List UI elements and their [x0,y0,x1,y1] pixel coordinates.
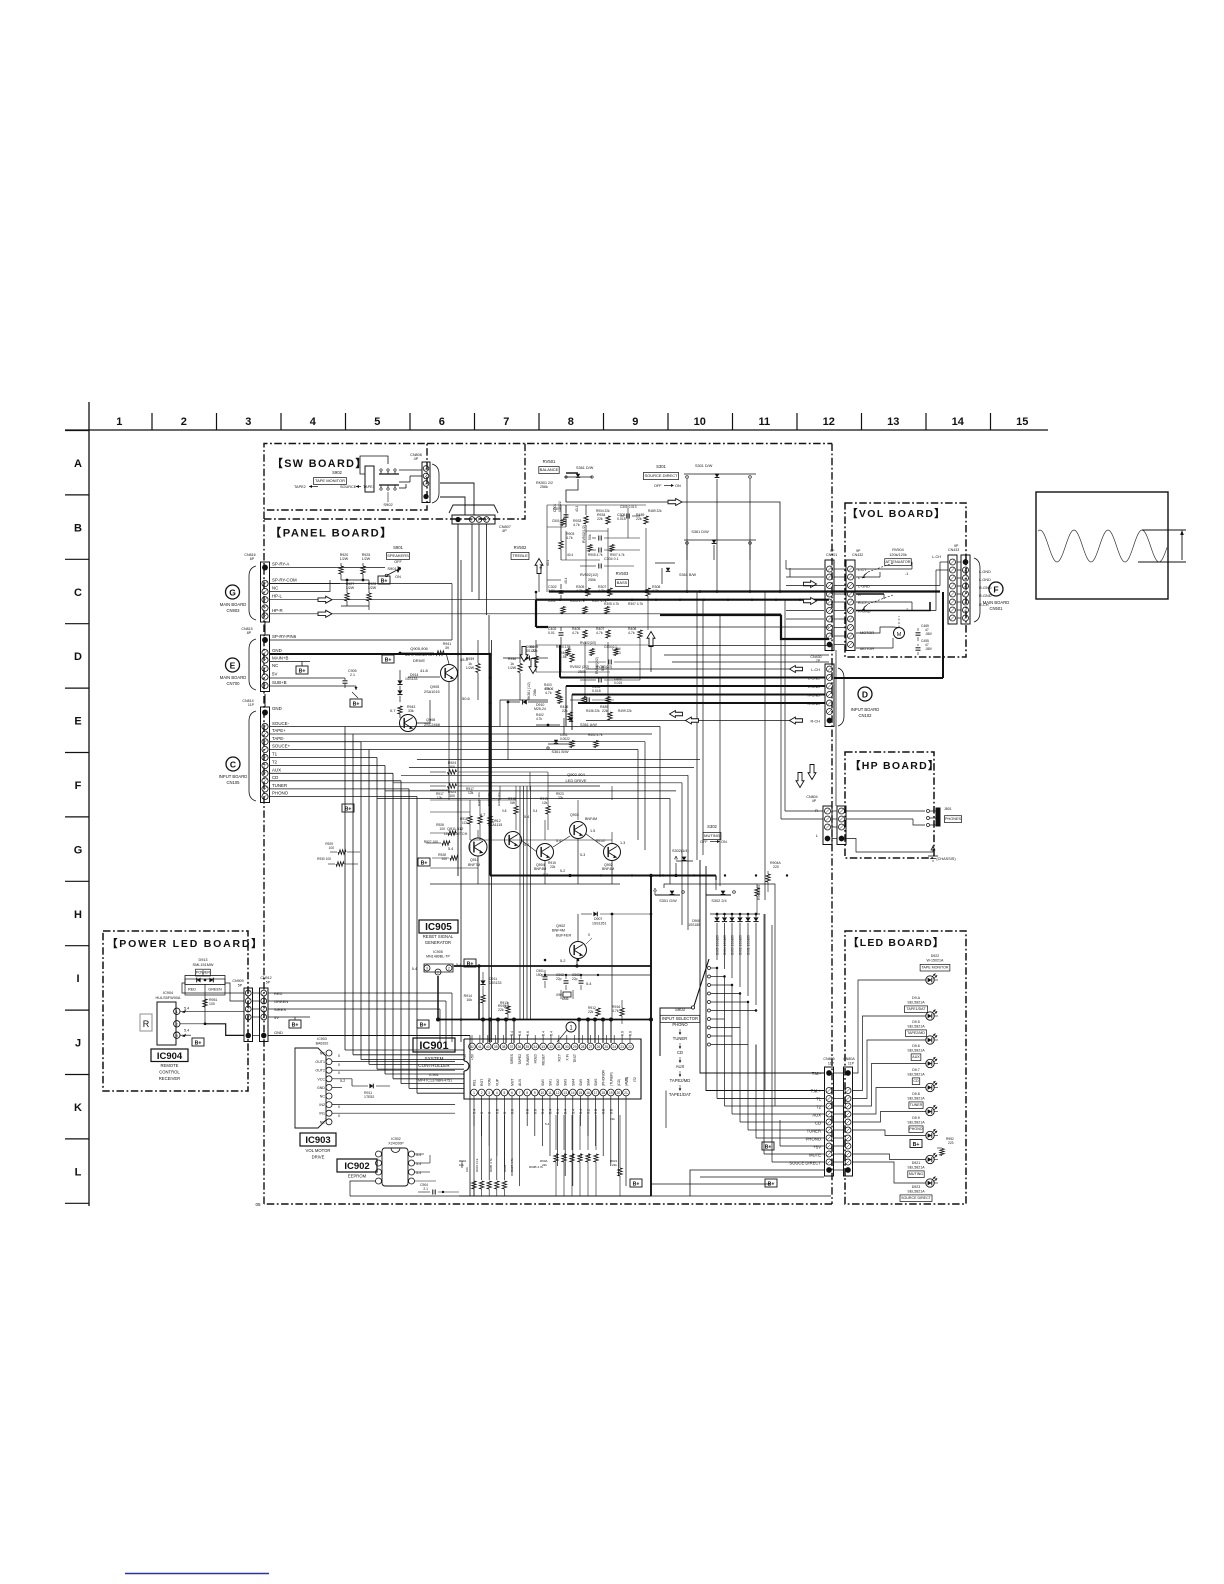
wire ic905 thick rail y966 [454,965,651,967]
svg-text:2SA1015: 2SA1015 [424,690,440,694]
svg-text:0.0022: 0.0022 [560,737,570,741]
svg-text:120k/120k: 120k/120k [889,553,907,557]
svg-text:C501: C501 [552,519,560,523]
svg-text:S902: S902 [332,470,342,475]
svg-text:24: 24 [612,1045,616,1049]
svg-text:18: 18 [601,1091,605,1095]
svg-text:1TE52: 1TE52 [364,1095,374,1099]
svg-text:223: 223 [948,1141,954,1145]
svg-text:SM0: SM0 [541,1079,545,1086]
tone texture resistors [561,519,565,526]
B+ box above IC901 label [417,1020,429,1028]
svg-text:5-2: 5-2 [560,869,565,873]
svg-text:22k: 22k [579,1153,583,1158]
svg-text:17: 17 [594,1091,598,1095]
grid ruler left line [88,402,90,1206]
wire CN401-CN432 bridges [834,568,846,570]
wire bundle verticals [559,645,561,678]
svg-text:1: 1 [176,1010,178,1014]
svg-text:11P: 11P [828,1062,835,1066]
wire tape rows right [345,726,660,728]
svg-text:MAIN BOARD: MAIN BOARD [220,675,247,680]
svg-text:41.8: 41.8 [420,668,429,673]
svg-text:MUTING: MUTING [909,1172,923,1176]
svg-text:10k: 10k [459,1163,464,1167]
svg-text:BALANCE: BALANCE [540,467,559,472]
svg-text:R922 1Ck: R922 1Ck [497,792,501,806]
svg-text:CN105: CN105 [226,780,240,785]
svg-text:NC: NC [320,1052,326,1056]
svg-text:5.4: 5.4 [571,1109,575,1114]
wire tone right rows [648,645,829,647]
svg-text:E: E [230,661,236,671]
svg-text:150p: 150p [536,973,544,977]
svg-text:L: L [858,576,860,580]
svg-text:5.4: 5.4 [556,1109,560,1114]
svg-text:BNF4M: BNF4M [585,817,597,821]
wire selector common [660,1008,692,1056]
svg-text:5-4: 5-4 [412,967,417,971]
svg-text:GND: GND [272,648,282,653]
svg-text:B+: B+ [195,1040,202,1046]
svg-text:R907 4.7k: R907 4.7k [510,1158,514,1172]
svg-text:Q902: Q902 [556,924,565,928]
svg-text:SUB+B: SUB+B [272,680,287,685]
tone mesh horizontals [547,504,646,506]
svg-text:LED DRIVE: LED DRIVE [565,778,586,783]
svg-text:BUFFER: BUFFER [556,934,571,938]
svg-text:26: 26 [597,1045,601,1049]
svg-text:4.7k: 4.7k [566,536,573,540]
svg-text:50k: 50k [588,534,592,540]
svg-text:IC904: IC904 [163,991,173,995]
svg-text:RV502(1/2): RV502(1/2) [582,525,586,543]
svg-text:【PANEL BOARD】: 【PANEL BOARD】 [270,527,393,540]
svg-text:0: 0 [338,1071,340,1075]
svg-text:C305 0.013: C305 0.013 [620,505,637,509]
svg-text:EEPROM: EEPROM [348,1174,367,1179]
svg-text:J: J [75,1038,81,1050]
wire tape monitor drive [448,682,450,790]
svg-text:L-GND: L-GND [858,585,870,589]
svg-text:2: 2 [448,967,450,971]
svg-text:1Ck: 1Ck [462,821,468,825]
svg-text:SOURCE DIRECT: SOURCE DIRECT [644,473,678,478]
svg-text:20: 20 [617,1091,621,1095]
svg-text:R: R [143,1019,150,1029]
svg-text:12k: 12k [468,791,474,795]
svg-text:1.5: 1.5 [590,829,595,833]
svg-text:40.1: 40.1 [546,560,550,566]
svg-text:5.4: 5.4 [579,1109,583,1114]
svg-text:S301 D/W: S301 D/W [695,464,713,468]
svg-text:D9.A: D9.A [912,996,921,1000]
svg-text:11: 11 [548,1091,552,1095]
svg-text:1: 1 [473,1091,475,1095]
svg-text:2: 2 [176,1023,178,1027]
svg-text:D9.5: D9.5 [912,1020,920,1024]
svg-text:D9.6: D9.6 [912,1044,920,1048]
svg-text:CN700: CN700 [226,681,240,686]
svg-text:BASS: BASS [617,580,628,585]
svg-text:NC: NC [272,663,278,668]
svg-text:22k: 22k [610,1117,615,1121]
svg-text:TAPE2: TAPE2 [294,485,306,489]
VOL to CN433 wires [940,561,948,563]
svg-text:R905 4.7k: R905 4.7k [489,1158,493,1172]
IC903 label box [300,1133,336,1146]
svg-text:1/2W: 1/2W [340,557,349,561]
svg-text:R-CH: R-CH [811,720,821,724]
svg-text:RESET: RESET [542,1054,546,1065]
wire mid bus below [512,1114,620,1116]
svg-text:L-CH: L-CH [932,555,941,559]
wire ic905 pin1 drop [437,976,439,1020]
svg-text:1SS133: 1SS133 [405,677,418,681]
connector CN804 hp side [837,806,846,845]
svg-text:L-GND: L-GND [979,578,991,582]
svg-text:BNF4M: BNF4M [552,929,565,933]
svg-text:3: 3 [176,1034,178,1038]
svg-text:D902 1SS185: D902 1SS185 [739,935,743,955]
svg-text:T.M.+: T.M.+ [811,1089,822,1094]
svg-text:10: 10 [541,1091,545,1095]
svg-text:R921 1Ck: R921 1Ck [487,792,491,806]
svg-text:16: 16 [586,1091,590,1095]
svg-text:W-15021A: W-15021A [927,959,945,963]
wire mid verticals [696,592,698,860]
svg-text:0.8: 0.8 [602,1109,606,1114]
svg-text:CN805: CN805 [823,1057,834,1061]
wire CN805-CN80A bridges [834,1072,844,1074]
wire MAIN+B [270,661,310,663]
svg-text:【SW BOARD】: 【SW BOARD】 [272,457,368,470]
grid ruler top line [65,429,1048,431]
svg-text:ON: ON [395,575,401,579]
svg-text:X IN: X IN [565,1053,569,1060]
svg-text:41: 41 [478,1045,482,1049]
svg-text:CN432: CN432 [852,553,863,557]
selector contact wires [711,967,717,969]
wire SP-RY-PIN6 [270,639,452,641]
svg-text:25: 25 [605,1045,609,1049]
svg-text:BNF7M: BNF7M [468,863,480,867]
svg-text:HULS5FW00A: HULS5FW00A [156,996,181,1000]
svg-text:Q905: Q905 [430,685,439,689]
svg-text:0: 0 [338,1105,340,1109]
svg-text:DRIVE: DRIVE [413,658,426,663]
wire reset drops to IC901 [482,1020,484,1044]
svg-text:D921: D921 [912,1161,921,1165]
node C input board CN105 [226,757,240,771]
svg-text:0: 0 [480,1112,484,1114]
svg-text:0.01: 0.01 [548,631,555,635]
svg-text:G: G [74,844,83,856]
svg-text:F: F [993,585,998,595]
thick vertical x943 [942,592,944,678]
svg-text:6P: 6P [250,557,255,561]
svg-text:3: 3 [426,967,428,971]
svg-text:39: 39 [494,1045,498,1049]
svg-text:SML151MW: SML151MW [193,963,214,967]
svg-text:S302(1/4): S302(1/4) [672,849,689,853]
svg-text:22k: 22k [636,517,642,521]
svg-text:B+: B+ [421,860,428,866]
svg-text:【VOL BOARD】: 【VOL BOARD】 [847,507,946,520]
tone mesh verticals [546,505,548,592]
svg-text:Q902-904: Q902-904 [567,772,586,777]
svg-text:SEL5821A: SEL5821A [907,1001,925,1005]
VOL BOARD outline [845,503,966,657]
svg-text:Q905,906: Q905,906 [410,646,428,651]
svg-text:S901: S901 [393,545,403,550]
wire fan boost [717,1098,824,1100]
wire T1 T2 branch right [417,759,700,761]
svg-text:OFF: OFF [654,484,662,488]
svg-text:4: 4 [310,416,317,428]
svg-text:1: 1 [116,416,122,428]
remote receiver window icon [140,1014,152,1031]
svg-text:SYSTEM: SYSTEM [425,1056,444,1061]
svg-text:S301: S301 [656,464,666,469]
svg-text:5.4: 5.4 [448,847,453,851]
svg-text:AUX: AUX [518,1078,522,1086]
svg-text:D903 1SS185: D903 1SS185 [731,935,735,955]
svg-text:0.2: 0.2 [587,1109,591,1114]
wire LED board feeds [853,980,926,1073]
wire bottom rail2 [651,1195,831,1197]
row D-E mid horizontals [500,699,548,701]
svg-text:GREEN: GREEN [208,988,222,992]
svg-text:TREBLE: TREBLE [512,553,528,558]
svg-text:0.015: 0.015 [614,681,622,685]
svg-text:D913: D913 [198,958,207,962]
svg-text:R905 220: R905 220 [757,885,761,900]
arrow L-CH left [790,666,803,673]
svg-text:C502: C502 [548,599,556,603]
svg-text:22k: 22k [555,1153,559,1158]
svg-text:5-4: 5-4 [586,982,592,986]
svg-text:S361 D/W: S361 D/W [576,466,594,470]
svg-text:PHONO: PHONO [272,791,289,796]
wire staircase bottom to IC [344,1039,346,1041]
connector CN403 [961,555,970,624]
svg-text:4.7k: 4.7k [544,687,550,691]
svg-text:5-3: 5-3 [580,853,585,857]
svg-text:12k: 12k [437,796,443,800]
svg-text:Q906: Q906 [426,718,435,722]
svg-text:0.8: 0.8 [495,1109,499,1114]
wire staircase left starts [665,1091,667,1129]
svg-text:38: 38 [502,1045,506,1049]
wire ic901 top stubs [471,1035,473,1043]
svg-text:T1: T1 [816,1097,822,1102]
svg-text:5V: 5V [272,672,277,677]
svg-text:1.3: 1.3 [620,841,625,845]
svg-text:11P: 11P [848,1062,855,1066]
svg-text:PHONES: PHONES [945,817,962,821]
svg-text:22k: 22k [597,517,603,521]
svg-text:D9.7: D9.7 [912,1068,920,1072]
svg-text:0: 0 [338,1054,340,1058]
svg-text:4.7k: 4.7k [545,691,552,695]
svg-text:+5V: +5V [463,1053,467,1060]
IC902 label box [337,1159,377,1172]
svg-text:S902: S902 [383,502,393,507]
svg-text:CN80A: CN80A [843,1057,855,1061]
wire CN401 stubs [786,568,824,570]
svg-text:CD: CD [272,775,278,780]
wire power led to conn [182,983,244,993]
arrow HP-L [270,599,785,601]
svg-text:LED SWITCH: LED SWITCH [444,832,468,836]
svg-text:R307 4.7k: R307 4.7k [592,599,607,603]
chassis ground [932,846,934,852]
selector right rail [759,914,761,1045]
svg-text:SMA: SMA [587,1078,591,1086]
svg-text:E: E [74,716,81,728]
svg-text:IC903: IC903 [305,1135,330,1146]
svg-text:29: 29 [573,1045,577,1049]
wire thick bus y599 [536,599,829,601]
svg-text:0: 0 [503,1112,507,1114]
LED D921 MUTING [926,1155,934,1163]
B+ box mid right [762,1142,774,1150]
svg-text:MAIN BOARD: MAIN BOARD [220,602,247,607]
arrow up tone [535,559,543,574]
svg-text:5-4: 5-4 [545,1122,550,1126]
svg-text:40.4: 40.4 [567,553,573,557]
svg-text:5.4: 5.4 [542,1031,546,1036]
svg-text:D905 1SS185: D905 1SS185 [716,935,720,955]
svg-text:CN909: CN909 [232,979,243,983]
svg-text:VCC: VCC [317,1077,325,1081]
svg-text:5-2: 5-2 [340,1079,345,1083]
HP BOARD outline [845,752,934,858]
svg-text:R906: R906 [503,1164,507,1172]
svg-text:INPUT BOARD: INPUT BOARD [851,707,880,712]
svg-text:ATTENUATOR: ATTENUATOR [885,560,910,564]
IC904 body [157,1002,176,1045]
svg-text:100: 100 [209,1002,215,1006]
svg-text:BNF4M: BNF4M [602,867,614,871]
svg-text:RV502(1/2): RV502(1/2) [580,573,598,577]
svg-text:D9.8: D9.8 [912,1092,920,1096]
wire thick L bus [535,600,537,627]
svg-text:13: 13 [887,416,899,428]
svg-text:SP-RY-COM: SP-RY-COM [272,578,297,583]
diode matrix top rail [710,913,760,915]
svg-text:9P: 9P [954,544,959,548]
wire ic904 to CN909 [180,1010,244,1012]
wire IC to CN805 staircase [716,968,718,1099]
svg-text:D907: D907 [594,917,602,921]
svg-text:(CD): (CD) [617,1079,621,1086]
svg-text:0.6: 0.6 [511,1109,515,1114]
svg-text:R: R [815,808,818,813]
svg-text:33: 33 [541,1045,545,1049]
svg-text:SOUCE DIRECT: SOUCE DIRECT [789,1161,821,1166]
waveform amplitude lines [1142,529,1186,531]
svg-text:R904 22k: R904 22k [596,509,610,513]
svg-text:4.7k: 4.7k [612,1009,619,1013]
svg-text:DRIVE: DRIVE [312,1155,325,1160]
svg-text:SEL5821A: SEL5821A [907,1190,925,1194]
IC901 top pin row [469,1043,476,1050]
svg-text:1: 1 [437,971,439,975]
svg-text:22k: 22k [612,1163,617,1167]
svg-text:0.8: 0.8 [526,1109,530,1114]
svg-text:7P: 7P [816,659,821,663]
svg-text:4P: 4P [414,457,419,461]
svg-text:T1: T1 [272,752,278,757]
svg-text:1/2W: 1/2W [362,557,371,561]
svg-text:REL: REL [473,1079,477,1086]
selector contacts [708,967,711,970]
arrow HP-R [270,613,781,615]
svg-text:8: 8 [526,1091,528,1095]
svg-text:3: 3 [488,1091,490,1095]
waveform sine wave [1038,530,1167,562]
switch S301 G/W [655,894,680,896]
svg-text:22k: 22k [563,1153,567,1158]
wire LR bundle thick [560,677,825,679]
svg-text:5P: 5P [238,984,243,988]
LED BOARD outline [845,931,966,1204]
svg-text:SM3: SM3 [564,1079,568,1086]
svg-text:C: C [230,760,236,770]
svg-text:19: 19 [609,1091,613,1095]
svg-text:I: I [76,973,79,985]
svg-text:5.4: 5.4 [541,1109,545,1114]
svg-text:GND: GND [274,1030,283,1035]
svg-text:B+: B+ [345,806,352,812]
svg-text:40.1: 40.1 [575,506,579,512]
svg-text:R305 4.7k: R305 4.7k [570,599,585,603]
svg-text:SIRES: SIRES [510,1053,514,1064]
svg-text:22k: 22k [587,1153,591,1158]
svg-text:0.7: 0.7 [390,708,396,713]
svg-text:TMP47C1370BN-4751: TMP47C1370BN-4751 [416,1079,452,1083]
svg-text:VOM: VOM [488,1078,492,1086]
svg-text:TUNER: TUNER [807,1129,821,1134]
svg-text:0.6: 0.6 [526,1031,530,1036]
svg-text:12k: 12k [542,801,548,805]
svg-text:31: 31 [557,1045,561,1049]
svg-text:-58V: -58V [925,647,933,651]
wire tone to CN401 set [548,626,829,628]
arrows LR bundle [670,711,683,718]
transistor Q903b [570,822,587,839]
PANEL BOARD outline [264,444,525,520]
svg-text:S301 G/W: S301 G/W [659,899,677,903]
svg-text:IC905: IC905 [425,922,452,933]
svg-text:5.4: 5.4 [524,843,529,847]
svg-text:RK501 (1/2): RK501 (1/2) [527,682,531,700]
wire CN903 connector link [264,621,266,635]
svg-text:1SS185: 1SS185 [688,923,700,927]
svg-text:100: 100 [441,857,447,861]
svg-text:250k: 250k [588,578,596,582]
svg-text:R907 4.7k: R907 4.7k [610,553,625,557]
svg-text:0.8: 0.8 [594,1109,598,1114]
svg-text:INPUT SELECTOR: INPUT SELECTOR [662,1016,698,1021]
svg-text:22k: 22k [558,796,564,800]
waveform inset box [1036,492,1168,599]
svg-text:SEL5821A: SEL5821A [907,1097,925,1101]
svg-text:C303: C303 [553,507,561,511]
IC901 body [464,1039,641,1099]
